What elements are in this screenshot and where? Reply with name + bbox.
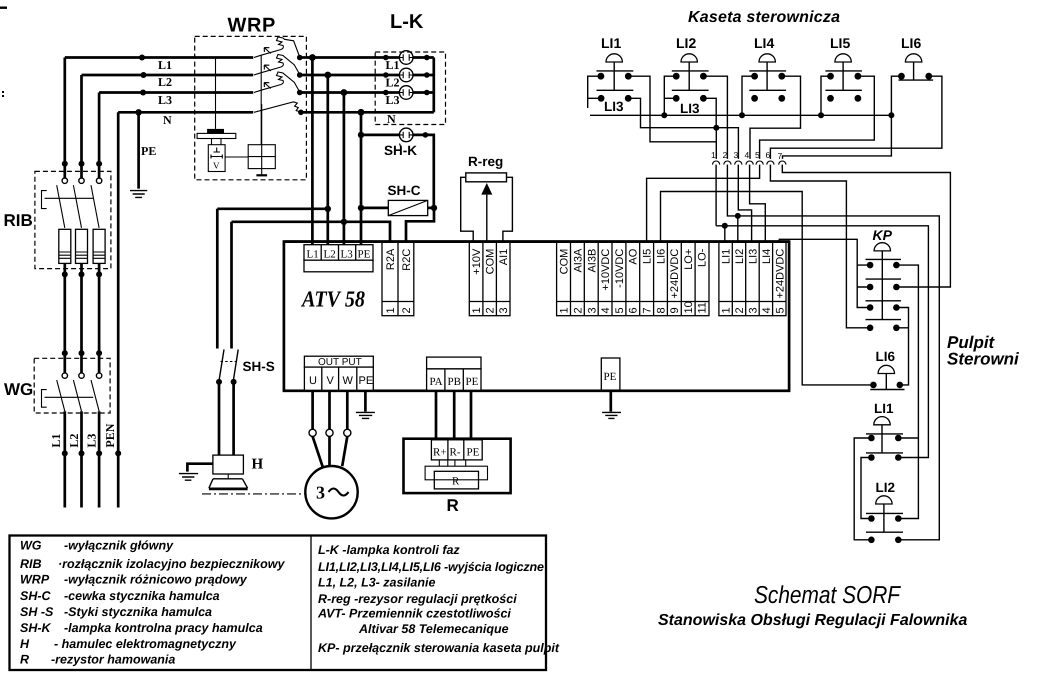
WRP link device to coil	[225, 156, 248, 158]
node SH-K right	[423, 132, 429, 138]
node lamp L1 right	[424, 55, 430, 61]
svg-text:PE: PE	[141, 144, 156, 158]
wire N after WRP	[301, 111, 434, 114]
svg-text:OUT PUT: OUT PUT	[318, 357, 362, 368]
svg-text:Schemat SORF: Schemat SORF	[754, 582, 902, 609]
WRP toroid core	[207, 129, 224, 134]
svg-text:ATV 58: ATV 58	[300, 287, 365, 312]
wire connector7 to KP row2	[782, 165, 950, 287]
svg-text:LI2: LI2	[734, 249, 746, 264]
wire L2 after WRP to lamp	[300, 74, 400, 77]
svg-text:LI6: LI6	[901, 35, 921, 51]
svg-text:PE: PE	[467, 447, 480, 459]
lamp SH-K	[384, 128, 417, 158]
svg-text:LO-: LO-	[697, 248, 709, 267]
RCD breaker WRP	[195, 15, 307, 180]
wire connector4 to ATV LI4	[750, 165, 766, 242]
svg-text:L1: L1	[49, 434, 63, 448]
wire PEN	[117, 112, 120, 507]
svg-text:4: 4	[600, 307, 612, 313]
resistor lugs	[439, 460, 465, 466]
svg-text:L3: L3	[341, 249, 354, 261]
WRP contact pole L2	[254, 55, 300, 76]
svg-text:LI6: LI6	[876, 349, 896, 364]
svg-text:R: R	[20, 653, 29, 667]
ATV terminal block control 1-11	[557, 242, 709, 316]
ground of H	[179, 474, 198, 481]
wire lamp return bus	[432, 58, 435, 113]
wire OUTPUT PE to ground	[364, 391, 367, 412]
svg-text:LI3: LI3	[748, 249, 760, 264]
WRP contact pole L1	[254, 37, 300, 58]
svg-text:L1: L1	[386, 58, 400, 72]
pushbutton LI1 kaseta	[597, 35, 634, 114]
main switch WG	[4, 358, 110, 413]
wire LI6 right to connector 6	[770, 76, 942, 159]
svg-text:L3: L3	[386, 93, 400, 107]
disconnector-fuse RIB	[4, 171, 111, 268]
wire pulpit LI1r1 to LI2r2 left chain	[854, 438, 871, 540]
svg-text:+10V: +10V	[471, 248, 483, 275]
wire connector3 to ATV LI3	[738, 165, 751, 242]
svg-text:R+: R+	[433, 447, 447, 459]
wire LI1 row1 right to connector 1	[628, 76, 716, 142]
svg-text:3: 3	[316, 483, 325, 503]
svg-text:+24DVDC: +24DVDC	[775, 249, 787, 299]
svg-text:- hamulec elektromagnetyczny: - hamulec elektromagnetyczny	[54, 637, 237, 651]
svg-text:COM: COM	[485, 249, 497, 275]
wire lamp L3 to bus	[413, 91, 434, 94]
bus LI3	[590, 114, 891, 116]
svg-text:Kaseta sterownicza: Kaseta sterownicza	[688, 9, 840, 26]
svg-text:LI1,LI2,LI3,LI4,LI5,LI6 -wyjś: LI1,LI2,LI3,LI4,LI5,LI6 -wyjścia logiczn…	[318, 560, 544, 574]
wire L3 drop to RIB	[98, 93, 101, 179]
svg-text:Altivar 58 Telemecanique: Altivar 58 Telemecanique	[358, 622, 509, 636]
node lamp L2 left	[383, 72, 389, 78]
wire lamp L2 to bus	[413, 74, 434, 77]
svg-text:PE: PE	[466, 376, 479, 388]
node L2 bottom	[79, 450, 85, 456]
svg-text:R-: R-	[450, 447, 461, 459]
ground OUTPUT PE	[356, 412, 375, 418]
wire LI1 row2 right LI3 net	[628, 98, 738, 159]
svg-text:L-K -lampka kontroli faz: L-K -lampka kontroli faz	[318, 543, 460, 557]
node L2 above RIB	[79, 161, 85, 167]
svg-text:R2A: R2A	[385, 248, 397, 270]
svg-text:PE: PE	[604, 371, 617, 383]
wire L2 feeder horizontal	[82, 74, 254, 77]
lamp L2	[399, 68, 413, 82]
svg-text:LI2: LI2	[876, 480, 896, 495]
wire lamp L1 to bus	[413, 56, 434, 59]
svg-text:N: N	[387, 112, 396, 126]
svg-text:RIB: RIB	[20, 557, 42, 571]
wire R2A to L3 and SH-S	[232, 222, 391, 242]
ATV terminal block logic LI1-LI4	[719, 242, 786, 316]
wire LI2 row1 right to connector 2	[703, 76, 727, 159]
svg-text:-wyłącznik różnicowo prądowy: -wyłącznik różnicowo prądowy	[64, 573, 248, 587]
svg-text:LI2: LI2	[676, 35, 696, 51]
motor 3~	[305, 391, 357, 519]
wire SH-S to brake H	[219, 382, 234, 455]
legend box	[10, 536, 547, 671]
svg-text:H: H	[20, 637, 30, 651]
svg-text:SH -S: SH -S	[20, 605, 54, 619]
wire ATV LI6 to pulpit LI6	[661, 192, 874, 385]
svg-text:L2: L2	[67, 434, 81, 448]
pushbutton LI6 pulpit	[870, 349, 904, 390]
ground PE of N	[130, 191, 147, 198]
svg-text:3: 3	[734, 150, 739, 160]
svg-text:AI3B: AI3B	[587, 249, 599, 273]
node N to ATV drop	[358, 109, 365, 116]
pushbutton LI2 pulpit	[866, 480, 903, 543]
wire LI2 row1 left to bus	[664, 76, 676, 115]
node on L2	[141, 72, 147, 78]
svg-text:2: 2	[734, 307, 746, 313]
svg-text:4: 4	[761, 307, 773, 313]
WRP coil stem up	[261, 104, 263, 145]
ATV brake terminals PA PB PE	[427, 357, 481, 390]
wire L3 below WG	[98, 411, 101, 507]
svg-text:LI4: LI4	[754, 35, 774, 51]
wire connector2 to ATV LI2 and pulpit	[727, 165, 939, 540]
selector switch KP	[866, 227, 902, 331]
svg-text:SH-S: SH-S	[243, 359, 275, 374]
svg-text:L1: L1	[158, 58, 172, 72]
node L1 above WG	[62, 350, 68, 356]
node SH-K left	[358, 132, 364, 138]
brake H	[209, 455, 264, 489]
wire L1 RIB to WG	[63, 263, 66, 373]
svg-text:3: 3	[587, 307, 599, 313]
svg-text:LI1: LI1	[874, 401, 894, 416]
wire KP row3 row4 right to pulpit LI6	[896, 308, 908, 385]
svg-text:2: 2	[573, 307, 585, 313]
svg-text:6: 6	[628, 307, 640, 313]
svg-text:4: 4	[745, 150, 750, 160]
WRP trip device V	[208, 145, 225, 172]
svg-text:W: W	[343, 375, 354, 387]
svg-text:11: 11	[697, 302, 709, 313]
svg-text:PEN: PEN	[103, 423, 117, 447]
wire N drop to ATV PE	[360, 112, 363, 244]
pushbutton LI4 kaseta	[749, 35, 786, 102]
wire connector5 to ATV LI5	[647, 165, 760, 242]
svg-text:+24DVDC: +24DVDC	[669, 249, 681, 299]
svg-text:R2C: R2C	[401, 249, 413, 271]
svg-text:2: 2	[723, 150, 728, 160]
svg-text:AI1: AI1	[498, 249, 510, 266]
svg-text:+10VDC: +10VDC	[600, 249, 612, 291]
svg-text:Stanowiska Obsługi Regulacji F: Stanowiska Obsługi Regulacji Falownika	[658, 612, 968, 629]
wire L3 RIB to WG	[98, 263, 101, 373]
wire LI4 row1 right to connector 4	[750, 76, 801, 159]
svg-text:KP- przełącznik sterowania kas: KP- przełącznik sterowania kaseta pulpit	[318, 641, 560, 655]
ground PE mid	[602, 412, 621, 418]
wire L1 after WRP to lamp	[300, 56, 400, 59]
wire connector1 feed	[715, 128, 717, 159]
node N to PE junction	[135, 109, 141, 115]
svg-text:KP: KP	[873, 227, 893, 243]
svg-text:-10VDC: -10VDC	[614, 249, 626, 288]
wire N feeder horizontal	[118, 111, 253, 114]
svg-text:LI1: LI1	[721, 249, 733, 264]
wire connector6 to KP row4	[770, 165, 870, 328]
svg-text:PE: PE	[358, 249, 371, 261]
wire LI2 row2 right drop	[703, 98, 716, 127]
connector strip 1-7	[711, 150, 786, 165]
WRP trip bar	[260, 56, 262, 145]
svg-text:LI3: LI3	[604, 99, 624, 114]
contactor coil SH-C	[388, 183, 428, 216]
svg-text:AI3A: AI3A	[573, 248, 585, 273]
wire L2 RIB to WG	[80, 263, 83, 373]
wire L3 drop to ATV	[343, 93, 346, 245]
svg-text:SH-K: SH-K	[20, 621, 52, 635]
svg-text:LI1: LI1	[601, 35, 621, 51]
wire L1 drop to RIB	[63, 58, 66, 179]
svg-text:AVT- Przemiennik czestotliwoś: AVT- Przemiennik czestotliwości	[317, 607, 511, 621]
wire PB to R	[453, 391, 456, 439]
svg-text:-cewka stycznika hamulca: -cewka stycznika hamulca	[64, 589, 220, 603]
node on L3	[140, 90, 146, 96]
svg-text:AO: AO	[628, 248, 640, 264]
svg-text:7: 7	[642, 307, 654, 313]
svg-text:LI6: LI6	[656, 249, 668, 264]
wire KP row1 right to pulpit	[896, 265, 918, 518]
ATV terminal block R2A R2C	[382, 242, 414, 316]
node L1 below RIB	[62, 271, 68, 277]
svg-text:-Styki stycznika hamulca: -Styki stycznika hamulca	[64, 605, 212, 619]
pushbutton LI2 kaseta	[672, 35, 709, 116]
node L1 to ATV drop	[309, 54, 316, 61]
svg-text:6: 6	[766, 150, 771, 160]
svg-text:L2: L2	[386, 76, 400, 90]
svg-text:1: 1	[471, 307, 483, 313]
svg-text:WRP: WRP	[20, 573, 50, 587]
node LI3 net junction	[713, 125, 719, 131]
WRP coil ground stub	[261, 169, 263, 176]
wire L3 after WRP to lamp	[300, 91, 400, 94]
svg-text:WG: WG	[4, 380, 33, 399]
svg-text:2: 2	[485, 307, 497, 313]
edge mark top-left	[0, 7, 7, 9]
ATV input terminals L1 L2 L3 PE	[304, 245, 373, 272]
wire pulpit LI1r2 to LI2r1 left chain	[861, 458, 871, 519]
node L2 below RIB	[79, 271, 85, 277]
node L3 above RIB	[96, 161, 102, 167]
svg-text:RIB: RIB	[4, 211, 33, 230]
svg-text:PB: PB	[448, 376, 461, 388]
svg-text:1: 1	[385, 307, 397, 313]
node bus LI2	[661, 112, 667, 118]
wire SH-C left	[361, 207, 388, 210]
svg-text:1: 1	[559, 307, 571, 313]
svg-text:N: N	[163, 113, 172, 127]
svg-text:L3: L3	[85, 434, 99, 448]
svg-text:PE: PE	[359, 375, 374, 387]
node SH-C left	[358, 205, 364, 211]
svg-text:5: 5	[755, 150, 760, 160]
wire SH-S upper to L2	[217, 207, 327, 210]
inverter ATV 58	[284, 242, 789, 391]
node L3 above WG	[96, 350, 102, 356]
lamp box L-K	[375, 11, 445, 126]
wire SH-K right	[413, 135, 434, 208]
ATV box top edge redraw	[284, 240, 789, 243]
wire +24DVDC to KP common	[779, 239, 870, 307]
wire connector1 to ATV LI1 and pulpit	[716, 165, 928, 458]
ATV earth terminal PE	[601, 358, 620, 390]
node L3 below RIB	[96, 271, 102, 277]
wire L3 feeder horizontal	[99, 91, 253, 94]
wire L2 below WG	[80, 411, 83, 507]
svg-text:COM: COM	[559, 249, 571, 275]
wire LI5 row1 left to bus	[821, 76, 831, 115]
svg-text:L1, L2, L3- zasilanie: L1, L2, L3- zasilanie	[318, 575, 435, 589]
WRP toroid body	[197, 133, 236, 138]
svg-text:V: V	[213, 161, 220, 171]
svg-text:SH-C: SH-C	[20, 589, 52, 603]
wire LI1 row1 left stub	[588, 76, 601, 108]
WRP contact pole L3	[254, 72, 300, 93]
svg-text:5: 5	[614, 307, 626, 313]
svg-text:LI5: LI5	[642, 249, 654, 264]
svg-text:LI3: LI3	[680, 101, 700, 116]
lamp L3	[399, 86, 413, 100]
svg-text:L-K: L-K	[390, 11, 424, 33]
svg-text:LI5: LI5	[830, 35, 850, 51]
svg-text:R: R	[452, 476, 460, 488]
wire PE to R	[470, 391, 473, 439]
wire PA to R	[435, 391, 438, 439]
pushbutton LI1 pulpit	[866, 401, 903, 461]
WRP contact pole N	[254, 102, 301, 113]
svg-text:L2: L2	[158, 75, 172, 89]
svg-text:1: 1	[711, 150, 716, 160]
node N out WRP	[298, 110, 304, 116]
lamp L1	[399, 51, 413, 65]
wire R2C to SH-C	[406, 208, 434, 242]
node bus LI5	[818, 112, 824, 118]
wire L1 below WG	[63, 411, 66, 507]
svg-text:H: H	[252, 457, 264, 473]
ATV terminal block analog input	[469, 242, 510, 316]
pushbutton LI5 kaseta	[825, 35, 862, 102]
svg-text:9: 9	[669, 307, 681, 313]
node L1 bottom	[62, 450, 68, 456]
node PEN bottom	[115, 450, 121, 456]
wire LI5 row1 right to connector 5	[760, 76, 875, 159]
node lamp L2 right	[424, 72, 430, 78]
wire SH-K left	[361, 134, 399, 137]
svg-text:L2: L2	[324, 249, 336, 261]
svg-text:·rozłącznik izolacyjno bezpiec: ·rozłącznik izolacyjno bezpiecznikowy	[58, 557, 285, 571]
node L2 above WG	[79, 350, 85, 356]
svg-text:8: 8	[656, 307, 668, 313]
svg-text:1: 1	[721, 307, 733, 313]
svg-text:LO+: LO+	[683, 249, 695, 270]
wire PE mid to ground	[609, 391, 612, 412]
WRP toroid stem	[212, 139, 222, 145]
node bus LI6	[888, 112, 894, 118]
svg-text:L1: L1	[307, 249, 319, 261]
node on L1	[139, 55, 145, 61]
braking resistor unit R	[404, 439, 511, 515]
node LI2 drop	[735, 213, 741, 219]
svg-text:7: 7	[778, 151, 783, 161]
WRP toroid sense line	[215, 58, 217, 129]
potentiometer R-reg	[461, 154, 513, 242]
node LI1 drop	[722, 223, 728, 229]
wire PE drop from N	[137, 112, 140, 188]
wire LI4 row1 left to bus	[742, 76, 755, 115]
node L2 to ATV drop	[324, 72, 331, 79]
svg-text:R-reg -rezysor regulacji pręt: R-reg -rezysor regulacji prętkości	[318, 592, 517, 606]
wire H ground lead	[187, 464, 213, 472]
ATV output block OUT PUT	[304, 356, 373, 390]
mechanical link brake to motor	[202, 493, 305, 495]
svg-text:-lampka kontrolna pracy hamulc: -lampka kontrolna pracy hamulca	[64, 621, 263, 635]
node lamp L3 right	[424, 90, 430, 96]
svg-text:LI4: LI4	[761, 249, 773, 264]
node L3 out WRP	[297, 90, 303, 96]
node lamp L3 left	[383, 90, 389, 96]
wire L2 drop to ATV	[326, 75, 329, 245]
contactor contacts SH-S	[216, 209, 275, 385]
svg-text:R: R	[447, 496, 459, 515]
node L3 to ATV drop	[341, 89, 348, 96]
svg-text:WG: WG	[20, 539, 42, 553]
node bus LI4	[739, 112, 745, 118]
svg-text:SH-C: SH-C	[388, 183, 421, 198]
wire LI1 row2 left stub	[588, 97, 601, 99]
WRP trip coil square	[248, 145, 275, 169]
node L1 out WRP	[297, 55, 303, 61]
svg-text:PA: PA	[430, 376, 443, 388]
node L3 bottom	[96, 450, 102, 456]
svg-text:WRP: WRP	[228, 15, 276, 37]
wire L1 feeder horizontal	[65, 56, 253, 59]
svg-text:10: 10	[683, 301, 695, 313]
svg-text:Sterowni: Sterowni	[947, 350, 1020, 369]
svg-text:-wyłącznik główny: -wyłącznik główny	[64, 539, 174, 553]
svg-text:2: 2	[401, 307, 413, 313]
svg-text:R-reg: R-reg	[468, 154, 503, 169]
edge mark left colon	[2, 91, 4, 93]
wire L1 drop to ATV	[311, 58, 314, 245]
svg-text:L3: L3	[158, 93, 172, 107]
node L2 out WRP	[297, 72, 303, 78]
svg-text:3: 3	[498, 307, 510, 313]
svg-text:5: 5	[775, 307, 787, 313]
svg-text:U: U	[309, 375, 317, 387]
wire L2 drop to RIB	[80, 75, 83, 178]
node lamp L1 left	[383, 55, 389, 61]
svg-text:3: 3	[748, 307, 760, 313]
svg-text:-rezystor hamowania: -rezystor hamowania	[51, 653, 175, 667]
svg-text:V: V	[327, 375, 335, 387]
wire LI6 left to connector 7	[783, 76, 902, 159]
resistor R element	[434, 471, 478, 489]
node SH-S line on L2	[325, 206, 331, 212]
node SH-C right	[431, 205, 437, 211]
wire LI2 row2 left stub	[664, 97, 676, 99]
node L1 above RIB	[62, 161, 68, 167]
node R2A line on L3	[341, 219, 347, 225]
wire SH-C right	[428, 207, 434, 210]
